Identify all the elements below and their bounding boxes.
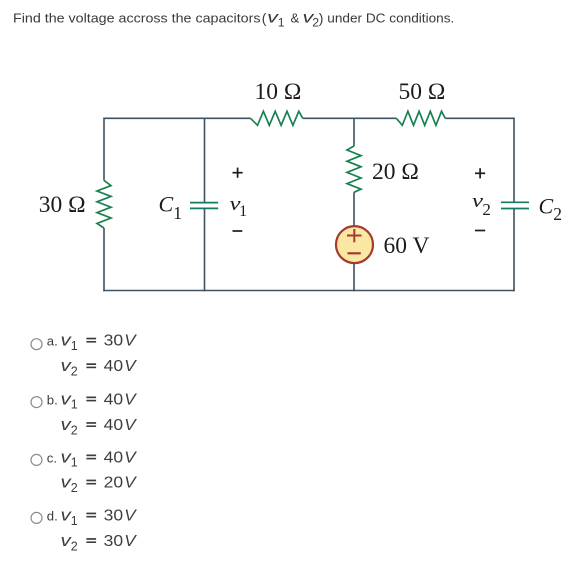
svg-text:40: 40 [104,417,124,434]
svg-text:10 Ω: 10 Ω [255,79,302,105]
svg-text:2: 2 [71,423,78,437]
wire: left branch lower segment [103,228,105,291]
svg-text:2: 2 [71,365,78,379]
wire: top rail middle segment (10 ohm to 50 ohm) [303,117,397,119]
svg-text:V: V [124,333,137,350]
option d line 1: v1 = 30V [61,506,138,528]
svg-text:30: 30 [104,508,124,525]
radio button option d [31,512,42,523]
option a line 1: v1 = 30V [61,331,138,353]
minus sign below v2 [475,230,485,232]
plus sign above v2 [475,168,485,178]
wire: right branch upper segment [513,118,515,203]
svg-text:40: 40 [104,358,124,375]
svg-text:d.: d. [47,509,58,524]
svg-text:2: 2 [482,200,491,219]
svg-text:1: 1 [71,398,78,412]
resistor 50 ohm zigzag [396,111,445,125]
wire: bottom rail [103,290,515,292]
wire: middle branch segment between 20 ohm and 60 V source [353,192,355,226]
wire: left branch upper segment [103,118,105,181]
svg-text:40: 40 [104,449,124,466]
minus sign below v1 [233,230,243,232]
resistor 30 ohm zigzag [97,180,111,228]
option a line 2: v2 = 40V [61,356,138,378]
svg-text:2: 2 [71,481,78,495]
svg-text:V: V [124,508,137,525]
svg-text:): ) [319,10,324,26]
svg-text:C2: C2 [539,194,562,224]
svg-text:&: & [291,10,300,25]
plus sign above v1 [233,168,243,178]
wire: right branch lower segment [513,209,515,292]
svg-text:Find the voltage accross the c: Find the voltage accross the capacitors [13,10,261,25]
option c line 1: v1 = 40V [61,447,138,469]
option c line 2: v2 = 20V [61,473,138,495]
wire: C1 branch lower segment [204,208,206,291]
svg-text:20: 20 [104,475,124,492]
option d line 2: v2 = 30V [61,531,138,553]
svg-text:1: 1 [71,514,78,528]
voltage source 60 V circle [336,226,373,263]
voltage source plus sign [347,229,362,242]
svg-text:1: 1 [278,16,285,30]
resistor 20 ohm zigzag [347,146,361,192]
svg-text:20 Ω: 20 Ω [372,159,419,185]
wire: middle branch upper stub [353,118,355,147]
svg-text:2: 2 [71,539,78,553]
svg-text:V: V [124,358,137,375]
wire: middle branch lower stub [353,263,355,291]
svg-text:1: 1 [71,339,78,353]
svg-text:30: 30 [104,533,124,550]
svg-text:30 Ω: 30 Ω [39,192,86,218]
capacitor C2 plates [501,202,529,208]
svg-text:1: 1 [71,456,78,470]
radio button option c [31,454,42,465]
svg-text:V: V [124,391,137,408]
svg-text:1: 1 [239,203,247,220]
svg-text:(: ( [262,10,267,26]
svg-text:V: V [124,475,137,492]
svg-text:V: V [124,533,137,550]
wire: top rail right segment (50 ohm to top-right corner) [445,117,514,119]
wire: C1 branch upper segment [204,118,206,203]
svg-text:60 V: 60 V [384,233,430,259]
svg-text:a.: a. [47,334,58,349]
svg-text:50 Ω: 50 Ω [399,79,446,105]
svg-text:30: 30 [104,333,124,350]
resistor 10 ohm zigzag [251,111,303,125]
radio button option a [31,339,42,350]
capacitor C1 plates [190,203,218,209]
option b line 2: v2 = 40V [61,415,138,437]
option b line 1: v1 = 40V [61,389,138,411]
voltage source minus sign [348,252,361,254]
svg-text:c.: c. [47,450,57,465]
svg-text:under DC conditions.: under DC conditions. [327,10,454,25]
wire: top rail left segment (top-left corner to 10 ohm) [104,117,251,119]
svg-text:b.: b. [47,392,58,407]
svg-text:C1: C1 [159,192,182,223]
svg-text:V: V [124,449,137,466]
radio button option b [31,397,42,408]
svg-text:40: 40 [104,391,124,408]
svg-text:V: V [124,417,137,434]
